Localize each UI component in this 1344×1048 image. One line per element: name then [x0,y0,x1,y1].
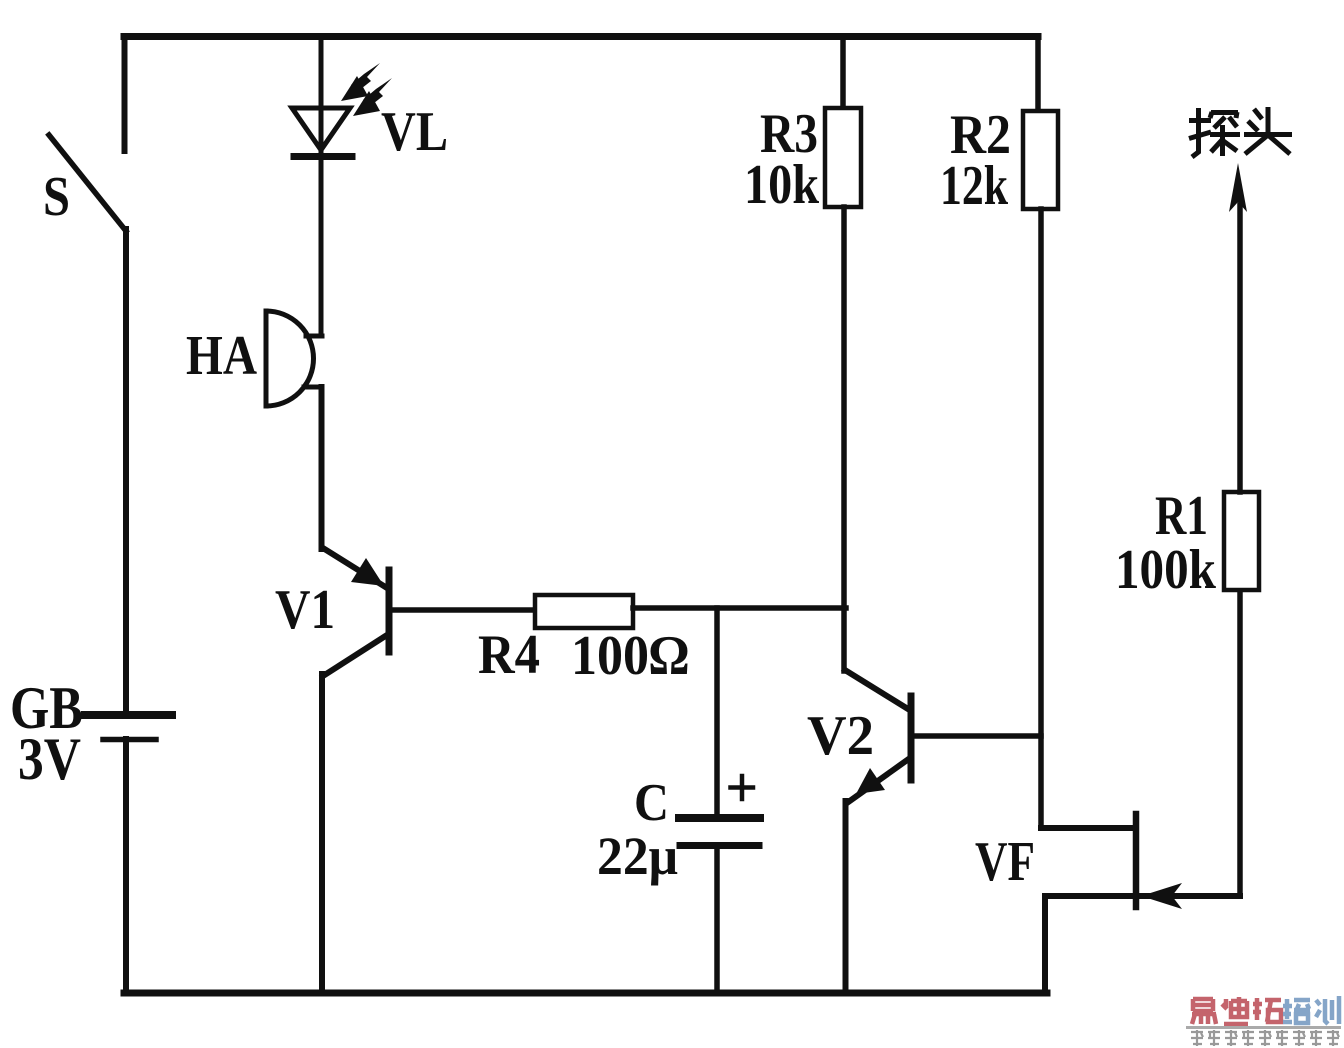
watermark underline [1186,1026,1341,1029]
buzzer HA bottom stub [304,385,322,390]
capacitor C plus sign [731,776,754,799]
transistor V2 base bar [908,696,915,780]
battery GB short plate [103,737,156,743]
wire V1 emitter vertical [319,674,325,993]
capacitor C top plate [679,814,760,822]
svg-text:10k: 10k [744,154,820,216]
battery GB long plate [85,711,172,719]
svg-text:C: C [634,774,669,832]
wire R2 down to VF drain corner [1038,209,1044,825]
wire R4 to node A [633,605,846,611]
wire capacitor top vertical [714,608,720,815]
LED VL triangle [292,108,350,150]
wire VF source vertical to bottom bus [1042,896,1048,993]
svg-text:HA: HA [186,325,257,387]
svg-text:100Ω: 100Ω [571,625,689,687]
transistor V1 emitter diagonal [323,635,387,676]
buzzer HA flat side [264,311,269,406]
svg-text:3V: 3V [18,726,81,792]
transistor V2 emitter diagonal [847,758,910,803]
wire R3 top vertical [840,37,846,109]
resistor R2 body [1023,111,1058,209]
wire left top vertical [122,37,128,152]
svg-text:22μ: 22μ [597,826,678,886]
wire R1 up to probe arrow [1237,205,1243,492]
label probe char tou [1244,107,1292,154]
LED flash arrow 2 [353,78,392,116]
svg-text:R1: R1 [1155,485,1208,547]
fet VF gate lead with arrow [1045,893,1240,899]
wire bottom bus [124,990,1047,997]
fet VF gate arrowhead [1141,883,1182,909]
resistor R1 body [1224,492,1259,590]
svg-text:V1: V1 [275,579,335,641]
label probe char tan [1189,108,1240,157]
transistor V1 collector diagonal [323,548,387,588]
fet VF drain lead [1041,825,1133,831]
switch S blade [49,135,126,231]
wire capacitor bottom vertical [714,846,720,993]
wire V1 base to R4 [391,607,537,613]
resistor R4 body [535,595,633,628]
wire V2 base to R2 branch [913,733,1041,739]
wire HA to V1 [319,387,325,549]
buzzer HA arc [266,311,314,406]
LED flash arrow 1 [341,63,380,101]
watermark big text yi di tuo pei xun [1186,996,1341,1046]
resistor R3 body [825,108,861,207]
svg-text:VL: VL [381,101,448,163]
svg-text:V2: V2 [807,705,874,767]
svg-text:100k: 100k [1115,539,1217,601]
wire left middle vertical [123,229,129,714]
wire left bottom vertical [123,739,129,993]
wire VF gate to R1 vertical [1237,590,1243,893]
transistor V1 collector arrowhead [351,558,384,586]
svg-text:12k: 12k [940,155,1009,217]
svg-text:R4: R4 [478,624,540,686]
probe arrowhead up [1229,163,1247,212]
LED VL cathode bar [294,153,352,160]
svg-text:S: S [43,166,70,228]
wire top bus [124,33,1038,40]
wire R2 top vertical [1035,37,1041,112]
wire LED branch vertical [319,37,324,337]
transistor V1 base bar [386,570,393,652]
transistor V2 collector diagonal [845,670,908,709]
transistor V2 emitter arrowhead [856,768,885,794]
wire V2 emitter vertical [843,801,849,993]
svg-text:VF: VF [975,831,1035,893]
buzzer HA top stub [306,334,322,339]
fet VF channel bar [1133,814,1140,907]
capacitor C bottom plate [680,842,759,849]
wire R3 to V2 collector [841,207,847,671]
watermark small gray text [1191,1030,1339,1046]
